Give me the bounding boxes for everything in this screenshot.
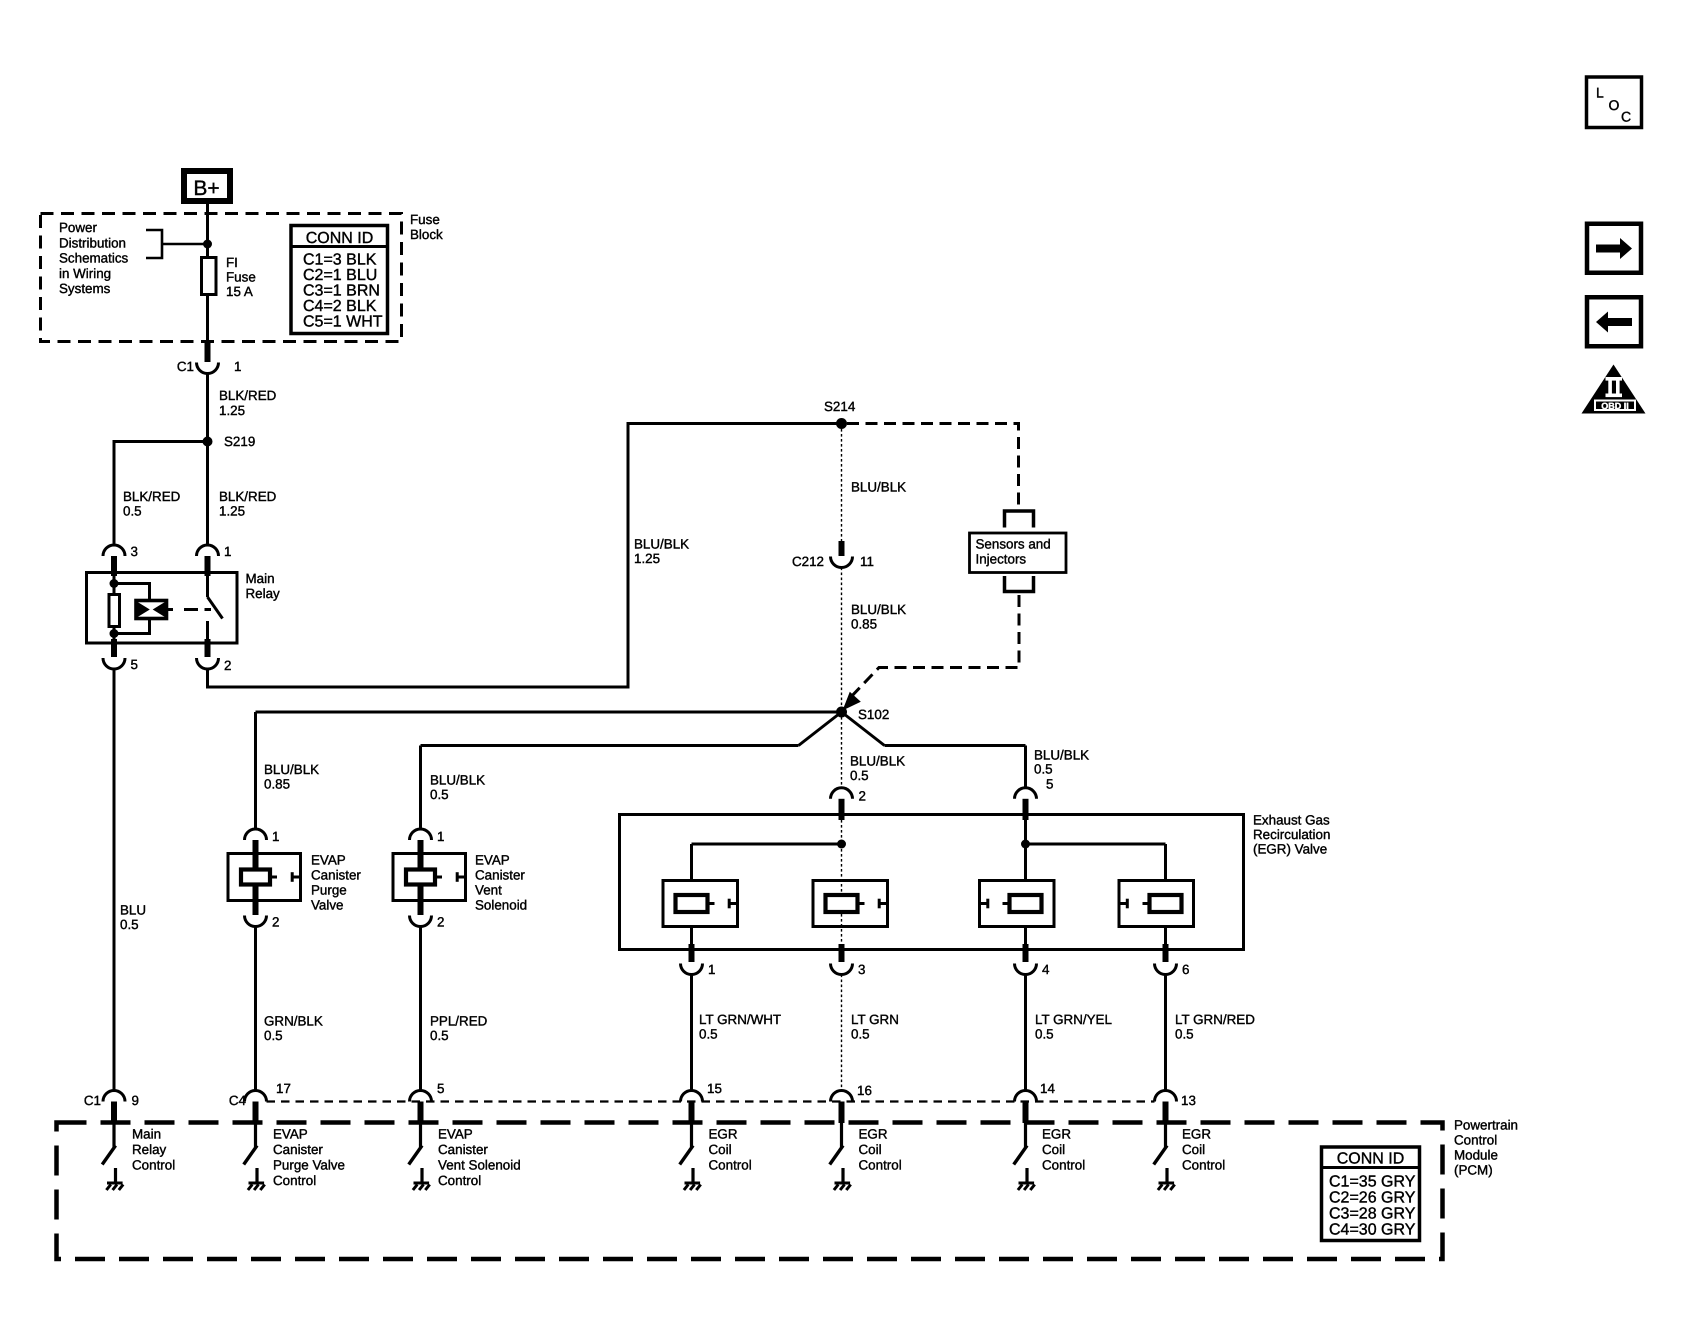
svg-text:EVAP: EVAP <box>438 1127 473 1142</box>
svg-text:L: L <box>1596 85 1604 101</box>
svg-text:C2=26 GRY: C2=26 GRY <box>1329 1190 1416 1207</box>
svg-text:0.85: 0.85 <box>264 777 290 792</box>
svg-text:LT GRN/WHT: LT GRN/WHT <box>699 1012 781 1027</box>
svg-text:0.5: 0.5 <box>1034 762 1053 777</box>
svg-text:0.5: 0.5 <box>430 787 449 802</box>
svg-text:5: 5 <box>131 657 138 672</box>
svg-text:1: 1 <box>272 829 279 844</box>
svg-text:Powertrain: Powertrain <box>1454 1118 1518 1133</box>
svg-text:S219: S219 <box>224 434 255 449</box>
svg-text:Vent Solenoid: Vent Solenoid <box>438 1158 521 1173</box>
svg-text:Coil: Coil <box>709 1142 732 1157</box>
svg-text:(EGR) Valve: (EGR) Valve <box>1253 842 1327 857</box>
svg-text:BLK/RED: BLK/RED <box>219 388 277 403</box>
svg-text:Exhaust Gas: Exhaust Gas <box>1253 813 1330 828</box>
svg-text:EVAP: EVAP <box>475 853 510 868</box>
svg-text:C3=1 BRN: C3=1 BRN <box>303 283 380 300</box>
svg-text:Distribution: Distribution <box>59 235 126 250</box>
svg-text:Control: Control <box>859 1158 902 1173</box>
svg-text:(PCM): (PCM) <box>1454 1163 1493 1178</box>
svg-text:BLK/RED: BLK/RED <box>123 489 181 504</box>
svg-text:LT GRN: LT GRN <box>851 1012 899 1027</box>
svg-text:Control: Control <box>438 1173 481 1188</box>
svg-text:5: 5 <box>1046 777 1053 792</box>
svg-text:Canister: Canister <box>438 1142 488 1157</box>
svg-text:Canister: Canister <box>475 868 525 883</box>
svg-text:BLU/BLK: BLU/BLK <box>634 537 689 552</box>
svg-text:Module: Module <box>1454 1148 1498 1163</box>
svg-text:S214: S214 <box>824 399 856 414</box>
svg-text:Main: Main <box>246 571 275 586</box>
svg-text:1.25: 1.25 <box>634 551 660 566</box>
svg-text:2: 2 <box>437 915 444 930</box>
svg-text:1: 1 <box>708 962 715 977</box>
svg-text:5: 5 <box>437 1081 444 1096</box>
svg-text:C5=1 WHT: C5=1 WHT <box>303 314 383 331</box>
svg-text:14: 14 <box>1040 1081 1055 1096</box>
svg-text:OBD II: OBD II <box>1601 401 1629 411</box>
svg-text:LT GRN/YEL: LT GRN/YEL <box>1035 1012 1112 1027</box>
svg-text:2: 2 <box>224 658 231 673</box>
svg-text:S102: S102 <box>858 707 889 722</box>
svg-text:Control: Control <box>1454 1133 1497 1148</box>
svg-text:Coil: Coil <box>1182 1142 1205 1157</box>
svg-text:Block: Block <box>410 227 443 242</box>
svg-text:EGR: EGR <box>859 1127 888 1142</box>
svg-text:1.25: 1.25 <box>219 504 245 519</box>
svg-text:CONN ID: CONN ID <box>306 230 374 247</box>
svg-text:3: 3 <box>858 962 865 977</box>
svg-text:C1=3 BLK: C1=3 BLK <box>303 252 377 269</box>
svg-text:Control: Control <box>709 1158 752 1173</box>
svg-text:Vent: Vent <box>475 883 502 898</box>
svg-text:LT GRN/RED: LT GRN/RED <box>1175 1012 1255 1027</box>
svg-text:Fuse: Fuse <box>410 212 440 227</box>
svg-text:Control: Control <box>1182 1158 1225 1173</box>
svg-text:C2=1 BLU: C2=1 BLU <box>303 267 377 284</box>
svg-text:BLK/RED: BLK/RED <box>219 489 277 504</box>
svg-text:GRN/BLK: GRN/BLK <box>264 1014 323 1029</box>
svg-text:Coil: Coil <box>1042 1142 1065 1157</box>
svg-text:Power: Power <box>59 220 97 235</box>
svg-text:B+: B+ <box>193 177 219 200</box>
svg-text:17: 17 <box>276 1081 291 1096</box>
svg-text:BLU/BLK: BLU/BLK <box>851 480 906 495</box>
svg-text:0.5: 0.5 <box>851 1027 870 1042</box>
svg-text:0.5: 0.5 <box>430 1028 449 1043</box>
svg-text:C4=2 BLK: C4=2 BLK <box>303 298 377 315</box>
svg-text:0.5: 0.5 <box>1035 1027 1054 1042</box>
svg-text:EVAP: EVAP <box>311 853 346 868</box>
svg-text:Relay: Relay <box>246 586 281 601</box>
svg-text:BLU/BLK: BLU/BLK <box>264 762 319 777</box>
svg-text:C4: C4 <box>229 1093 247 1108</box>
svg-text:EGR: EGR <box>709 1127 738 1142</box>
svg-text:C1: C1 <box>84 1093 101 1108</box>
svg-text:3: 3 <box>131 544 138 559</box>
svg-text:Systems: Systems <box>59 281 111 296</box>
svg-text:Main: Main <box>132 1127 161 1142</box>
svg-text:O: O <box>1609 97 1620 113</box>
svg-text:C212: C212 <box>792 554 824 569</box>
svg-text:16: 16 <box>857 1083 872 1098</box>
svg-text:EGR: EGR <box>1182 1127 1211 1142</box>
svg-text:Control: Control <box>132 1158 175 1173</box>
svg-text:EVAP: EVAP <box>273 1127 308 1142</box>
svg-text:EGR: EGR <box>1042 1127 1071 1142</box>
svg-text:4: 4 <box>1042 962 1050 977</box>
svg-text:Injectors: Injectors <box>976 552 1027 567</box>
svg-text:C1: C1 <box>177 359 194 374</box>
svg-text:C: C <box>1621 109 1631 125</box>
svg-text:Recirculation: Recirculation <box>1253 827 1330 842</box>
svg-text:BLU/BLK: BLU/BLK <box>430 773 485 788</box>
svg-text:C4=30 GRY: C4=30 GRY <box>1329 1222 1416 1239</box>
svg-text:PPL/RED: PPL/RED <box>430 1014 488 1029</box>
svg-text:Canister: Canister <box>273 1142 323 1157</box>
svg-text:0.5: 0.5 <box>123 504 142 519</box>
svg-text:BLU/BLK: BLU/BLK <box>851 602 906 617</box>
svg-text:Control: Control <box>273 1173 316 1188</box>
svg-text:Valve: Valve <box>311 898 344 913</box>
svg-text:0.85: 0.85 <box>851 617 877 632</box>
svg-text:0.5: 0.5 <box>120 917 139 932</box>
svg-text:in Wiring: in Wiring <box>59 266 111 281</box>
svg-text:15 A: 15 A <box>226 284 253 299</box>
svg-text:1: 1 <box>224 544 231 559</box>
svg-text:Fuse: Fuse <box>226 270 256 285</box>
svg-text:Control: Control <box>1042 1158 1085 1173</box>
svg-text:CONN ID: CONN ID <box>1337 1151 1405 1168</box>
svg-text:1.25: 1.25 <box>219 403 245 418</box>
svg-text:0.5: 0.5 <box>264 1028 283 1043</box>
svg-text:C3=28 GRY: C3=28 GRY <box>1329 1206 1416 1223</box>
svg-text:C1=35 GRY: C1=35 GRY <box>1329 1174 1416 1191</box>
svg-text:Relay: Relay <box>132 1142 167 1157</box>
svg-text:Canister: Canister <box>311 868 361 883</box>
svg-text:0.5: 0.5 <box>1175 1027 1194 1042</box>
svg-text:0.5: 0.5 <box>850 768 869 783</box>
svg-text:2: 2 <box>859 789 866 804</box>
svg-text:Purge: Purge <box>311 883 347 898</box>
svg-text:9: 9 <box>132 1093 139 1108</box>
svg-text:6: 6 <box>1182 962 1189 977</box>
svg-text:15: 15 <box>707 1081 722 1096</box>
svg-text:0.5: 0.5 <box>699 1027 718 1042</box>
svg-text:Purge Valve: Purge Valve <box>273 1158 345 1173</box>
svg-text:1: 1 <box>437 829 444 844</box>
svg-text:Solenoid: Solenoid <box>475 898 527 913</box>
svg-text:BLU: BLU <box>120 903 146 918</box>
svg-text:BLU/BLK: BLU/BLK <box>850 754 905 769</box>
svg-text:FI: FI <box>226 255 238 270</box>
svg-text:Coil: Coil <box>859 1142 882 1157</box>
svg-text:Schematics: Schematics <box>59 251 129 266</box>
svg-text:13: 13 <box>1181 1093 1196 1108</box>
svg-text:Sensors and: Sensors and <box>976 537 1051 552</box>
svg-text:2: 2 <box>272 915 279 930</box>
svg-text:BLU/BLK: BLU/BLK <box>1034 748 1089 763</box>
svg-text:11: 11 <box>860 554 874 569</box>
svg-text:1: 1 <box>234 359 241 374</box>
